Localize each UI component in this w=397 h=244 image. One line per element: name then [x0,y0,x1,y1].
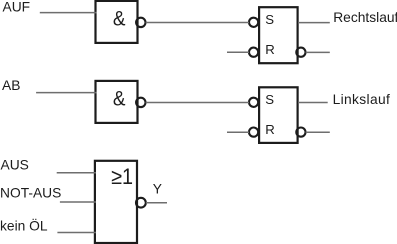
U2 output inverter bubble [136,98,145,107]
wire U3 notQ output [306,51,330,53]
svg-text:S: S [265,12,274,27]
wire AUS input [57,172,96,174]
wire AB input [36,92,96,94]
U5 output inverter bubble [136,198,146,208]
svg-text:kein ÖL: kein ÖL [0,217,48,234]
svg-text:NOT-AUS: NOT-AUS [0,186,61,201]
svg-text:AUS: AUS [1,158,29,173]
svg-text:R: R [265,42,275,57]
wire kein OL input [57,232,96,234]
svg-text:&: & [113,87,126,110]
U4 R output bubble [296,128,305,137]
svg-text:S: S [265,92,274,107]
U1 output inverter bubble [136,18,145,27]
svg-text:&: & [113,7,126,30]
svg-text:Linkslauf: Linkslauf [333,92,391,107]
nand gate U2 box [96,81,138,123]
nand gate U1 box [96,1,138,43]
svg-text:R: R [265,122,275,137]
svg-text:AUF: AUF [3,0,31,15]
sr-latch U3 box [259,7,298,63]
svg-text:Y: Y [153,182,162,197]
svg-text:AB: AB [2,78,20,93]
U4 S input bubble [249,98,258,107]
U3 R input bubble [249,48,258,57]
U4 R input bubble [249,128,258,137]
wire U4 Q output Linkslauf [298,102,328,104]
wire U4 notQ output [306,131,330,133]
U3 R output bubble [296,48,305,57]
wire U4 R input stub [227,131,249,133]
wire U1 output to U3 S [146,22,250,24]
wire U3 Q output Rechtslauf [298,22,330,24]
svg-text:Rechtslauf: Rechtslauf [333,10,397,25]
wire U3 R input stub [227,51,249,53]
wire Y output [146,202,167,204]
wire NOT-AUS input [60,201,96,203]
wire U2 output to U4 S [146,102,250,104]
sr-latch U4 box [259,87,298,143]
wire AUF input [40,12,97,14]
svg-text:≥1: ≥1 [111,165,133,189]
or gate U5 box [95,161,137,243]
U3 S input bubble [249,18,258,27]
